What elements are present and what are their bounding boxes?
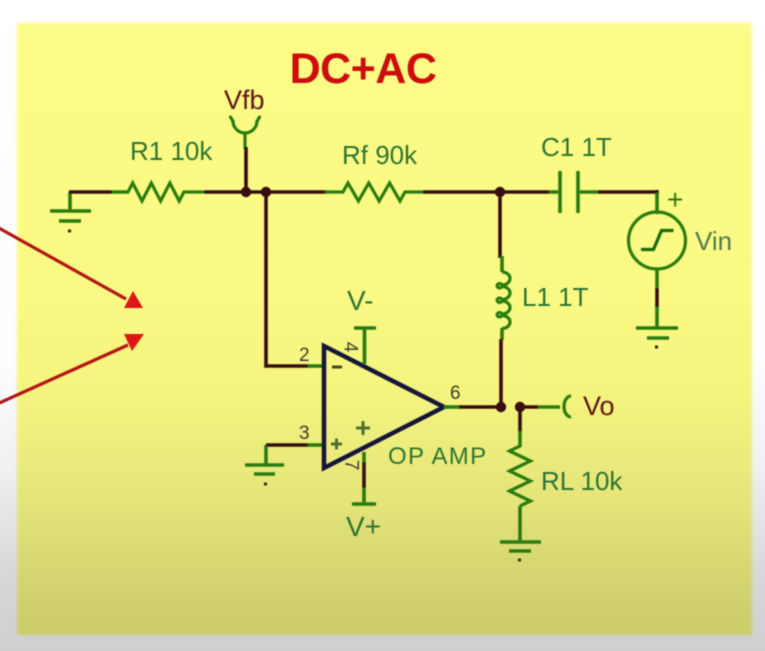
ground GND3 (pin 3) bbox=[245, 445, 284, 484]
wire GND3 to pin 3 bbox=[266, 443, 308, 447]
svg-text:DC+AC: DC+AC bbox=[290, 45, 437, 93]
junction node C dot bbox=[495, 187, 505, 197]
ground GND1 (left of R1) bbox=[50, 192, 91, 231]
svg-text:+: + bbox=[667, 184, 683, 215]
junction node Vfb dot B bbox=[261, 187, 271, 197]
svg-text:L1 1T: L1 1T bbox=[522, 282, 589, 312]
junction node Vo dot A bbox=[496, 402, 506, 412]
wire feedback node Vfb to pin 2 bbox=[266, 192, 308, 366]
svg-text:Vfb: Vfb bbox=[224, 85, 265, 115]
plus sign pin 3 bbox=[331, 439, 342, 450]
svg-text:C1 1T: C1 1T bbox=[541, 132, 612, 162]
wire pin 6 to node Vo bbox=[444, 405, 460, 409]
probe Vfb bbox=[231, 117, 260, 148]
svg-text:V-: V- bbox=[347, 285, 373, 316]
rail V+ bbox=[362, 452, 366, 462]
svg-text:R1 10k: R1 10k bbox=[130, 136, 213, 166]
svg-text:Rf 90k: Rf 90k bbox=[342, 140, 418, 170]
junction node Vo dot B bbox=[515, 402, 525, 412]
ground GND4 (RL) bbox=[500, 542, 541, 560]
inductor L1 bbox=[497, 272, 510, 329]
op-amp U1 bbox=[324, 346, 444, 468]
svg-text:OP AMP: OP AMP bbox=[388, 443, 487, 470]
wire node C to L1 bbox=[498, 192, 502, 258]
wire node Vo to Vo terminal bbox=[520, 405, 538, 409]
svg-text:2: 2 bbox=[299, 345, 310, 366]
resistor RL bbox=[510, 446, 531, 506]
svg-text:4: 4 bbox=[340, 342, 361, 353]
svg-text:Vin: Vin bbox=[695, 226, 732, 256]
resistor Rf bbox=[325, 183, 423, 201]
source Vin bbox=[629, 212, 686, 269]
wire C1 to Vin bbox=[598, 190, 657, 195]
svg-text:RL 10k: RL 10k bbox=[541, 466, 623, 496]
wire Vfb stem bbox=[244, 147, 248, 192]
rail V- bbox=[354, 328, 376, 364]
wire R1 to node Vfb bbox=[204, 190, 246, 194]
svg-text:V+: V+ bbox=[346, 511, 381, 542]
terminal Vo bracket bbox=[564, 396, 571, 417]
resistor R1 bbox=[128, 183, 204, 201]
capacitor C1 bbox=[560, 171, 598, 213]
svg-text:Vo: Vo bbox=[583, 391, 615, 421]
minus sign pin 2 bbox=[332, 366, 342, 369]
wire Rf to node C bbox=[423, 190, 500, 194]
plus sign inside op-amp bbox=[356, 421, 370, 435]
wire Vin to GND2 bbox=[655, 270, 659, 289]
wire node Vo to RL bbox=[518, 407, 522, 432]
wire L1 to node Vo bbox=[500, 328, 504, 340]
annotation arrow 2 bbox=[0, 334, 144, 404]
wire RL to GND4 bbox=[518, 506, 522, 541]
junction node Vfb dot A bbox=[241, 187, 251, 197]
wire node Vfb to Rf bbox=[266, 190, 327, 194]
annotation arrow 1 bbox=[0, 227, 143, 308]
svg-text:3: 3 bbox=[299, 423, 310, 444]
svg-text:7: 7 bbox=[341, 460, 362, 471]
wire between Vfb junction dots bbox=[246, 190, 266, 194]
wire GND1 to R1 bbox=[69, 190, 112, 194]
ground GND2 (Vin) bbox=[636, 328, 678, 347]
svg-text:6: 6 bbox=[450, 383, 461, 404]
wire node C to C1 bbox=[500, 190, 549, 194]
